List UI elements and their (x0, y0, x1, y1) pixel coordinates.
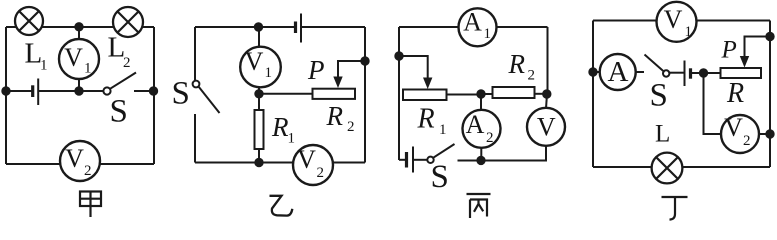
svg-text:2: 2 (528, 68, 536, 84)
svg-text:2: 2 (347, 119, 355, 135)
wire: circuit 4 right wire (769, 21, 771, 168)
wiper arrow P circuit 4 (740, 56, 749, 68)
wire: circuit 1 top wire (6, 26, 154, 28)
wire: V2 right lead circuit 4 (759, 133, 770, 135)
wire: R2 right lead to right wire (535, 93, 548, 95)
rheostat R body (721, 68, 762, 78)
battery (cell) circuit 2 (294, 22, 297, 34)
junction node left wire circuit 4 (589, 68, 596, 75)
wiper arrow circuit 3 (423, 78, 432, 90)
svg-text:R: R (417, 104, 435, 135)
junction node top wire circuit 2 (255, 23, 262, 30)
svg-text:S: S (110, 94, 128, 130)
switch S circuit 3 (427, 157, 433, 163)
voltmeter V circuit 3 (527, 108, 565, 146)
junction node middle-right circuit 1 (150, 87, 157, 94)
label DING chinese character (662, 197, 688, 220)
svg-text:1: 1 (84, 61, 92, 77)
wire: voltmeter V1 branch vertical wire (78, 27, 80, 91)
lamp L1 (15, 7, 43, 35)
voltmeter V1 circuit 2 (240, 47, 281, 88)
junction node middle-left circuit 1 (2, 87, 9, 94)
label JIA chinese character (80, 192, 101, 218)
wire: circuit 1 right wire (153, 27, 155, 164)
svg-text:V: V (297, 145, 316, 174)
wire: circuit 4 top wire (593, 20, 770, 22)
switch S circuit 1 (103, 87, 110, 94)
voltmeter V2 circuit 4 (721, 115, 759, 153)
label BING chinese character (467, 194, 491, 218)
svg-text:A: A (463, 8, 482, 37)
wire: circuit 4 bottom wire (593, 166, 770, 168)
junction node R1-R2-A2 circuit 3 (477, 90, 484, 97)
svg-text:2: 2 (743, 133, 751, 149)
wire: R wiper lead circuit 4 (745, 37, 771, 57)
junction node wiper on left wire circuit 3 (395, 52, 402, 59)
svg-text:A: A (608, 56, 629, 88)
voltmeter V2 circuit 1 (60, 141, 100, 181)
wire: A to switch blade stub (636, 71, 645, 73)
svg-text:1: 1 (685, 24, 693, 40)
wire: circuit 1 middle wire switch to right wire (134, 90, 154, 92)
svg-text:2: 2 (486, 130, 494, 146)
wire: circuit 3 top wire (399, 26, 548, 28)
svg-text:S: S (431, 159, 449, 195)
wire: circuit 2 top wire right of battery (301, 26, 365, 28)
wire: R1 bottom lead (258, 149, 260, 163)
svg-text:P: P (307, 55, 325, 85)
svg-text:2: 2 (317, 165, 325, 181)
svg-text:1: 1 (439, 122, 447, 138)
junction node bottom wire circuit 2 (255, 159, 262, 166)
junction node wiper on right wire circuit 4 (766, 33, 773, 40)
wire: circuit 4 left wire (592, 21, 594, 168)
rheostat R2 body (313, 89, 356, 99)
battery (cell) circuit 4 (684, 61, 686, 87)
wire: V2 branch left wire circuit 4 (704, 73, 722, 134)
voltmeter V2 circuit 2 (293, 145, 333, 185)
svg-text:R: R (326, 101, 344, 131)
wire: left wire to ammeter A (593, 71, 600, 73)
junction node below V1 circuit 2 (255, 90, 262, 97)
wire: switch to A2 junction circuit 3 (458, 160, 482, 162)
svg-text:R: R (726, 78, 744, 109)
wire: switch to battery circuit 4 (669, 72, 684, 74)
wire: circuit 1 bottom wire (6, 163, 154, 165)
junction node V2 on right wire circuit 4 (766, 130, 773, 137)
svg-text:V: V (664, 5, 683, 34)
wire: circuit 3 left wire (398, 27, 400, 160)
svg-text:V: V (245, 47, 264, 76)
wire: circuit 2 left wire lower part (194, 114, 196, 163)
wire: circuit 3 bottom wire from corner to battery (399, 159, 406, 161)
svg-text:2: 2 (123, 55, 131, 71)
svg-text:1: 1 (288, 131, 296, 147)
lamp L2 (113, 7, 143, 37)
wire: V branch vertical wires (546, 94, 547, 109)
junction node wiper on right wire circuit 2 (361, 57, 368, 64)
resistor R1 (255, 110, 264, 149)
battery (cell) circuit 1 (31, 85, 34, 97)
svg-text:P: P (721, 37, 737, 64)
wire: R1 to A2 junction wire (447, 94, 482, 96)
wire: junction to R2 lead (481, 93, 493, 95)
wire: battery to switch wire circuit 3 (413, 159, 427, 161)
svg-text:1: 1 (40, 58, 48, 74)
ammeter A circuit 4 (600, 54, 636, 90)
wire: V1 to R1 vertical branch circuit 2 (258, 27, 260, 110)
wire: junction to rheostat R2 horizontal wire (259, 93, 313, 95)
svg-text:S: S (172, 76, 190, 112)
wire: circuit 1 left wire (5, 27, 7, 164)
svg-text:R: R (508, 49, 526, 79)
switch S circuit 4 (645, 55, 664, 72)
junction node battery-R-V2 circuit 4 (700, 69, 707, 76)
resistor R2 body (493, 87, 535, 98)
voltmeter V1 circuit 1 (59, 39, 99, 79)
wire: circuit 2 left wire upper part (194, 27, 196, 81)
wire: rheostat R1 wiper lead circuit 3 (399, 56, 428, 78)
svg-text:V: V (65, 144, 84, 173)
battery (cell) circuit 3 (405, 152, 408, 168)
wire: circuit 1 middle wire left segment to battery (6, 90, 32, 92)
wire: battery to junction and R lead circuit 4 (691, 72, 721, 74)
junction node on top wire circuit 1 (75, 23, 82, 30)
svg-text:V: V (537, 113, 556, 142)
svg-text:S: S (650, 78, 668, 114)
svg-text:1: 1 (484, 26, 492, 42)
ammeter A1 (459, 8, 497, 46)
junction node below V1 circuit 1 (75, 87, 82, 94)
svg-text:1: 1 (265, 65, 273, 81)
lamp L circuit 4 (652, 153, 683, 184)
rheostat R1 body (403, 90, 447, 101)
voltmeter V1 circuit 4 (657, 2, 697, 42)
svg-text:R: R (271, 112, 289, 142)
junction node A2 bottom circuit 3 (477, 157, 484, 164)
wire: A2 branch vertical wires (480, 94, 482, 111)
wire: circuit 2 right wire (364, 27, 366, 163)
wiper arrow P circuit 2 (333, 77, 342, 89)
svg-text:L: L (655, 121, 670, 148)
svg-text:V: V (724, 113, 743, 142)
svg-text:A: A (466, 110, 485, 139)
wire: circuit 2 top wire left of battery (195, 26, 295, 28)
svg-text:V: V (64, 43, 83, 72)
wire: R2 wiper lead to right wire (338, 61, 365, 77)
junction node R2-right wire circuit 3 (543, 90, 550, 97)
ammeter A2 (463, 110, 501, 148)
switch S circuit 2 (193, 81, 200, 88)
wire: circuit 2 bottom wire (195, 162, 365, 164)
wire: circuit 1 middle wire battery to switch (38, 90, 103, 92)
wire: circuit 3 right wire upper (547, 27, 549, 94)
svg-text:2: 2 (84, 163, 92, 179)
label YI chinese character (270, 196, 293, 216)
